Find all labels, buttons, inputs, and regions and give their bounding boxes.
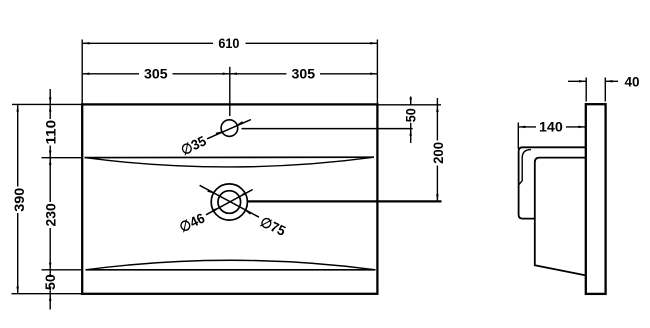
label 230 — [43, 203, 59, 227]
chain dim extension y158 — [42, 157, 83, 159]
svg-text:305: 305 — [292, 65, 316, 81]
tap hole circle — [221, 120, 238, 137]
svg-text:230: 230 — [43, 203, 59, 227]
basin outline plan view — [82, 104, 377, 293]
waste hole outer circle — [211, 184, 247, 220]
svg-text:140: 140 — [539, 118, 563, 134]
label 110 — [43, 120, 59, 145]
basin back ledge sag curve — [85, 157, 374, 167]
svg-text:390: 390 — [11, 188, 27, 212]
dim 200 — [436, 98, 438, 141]
label diameter 35 — [178, 132, 209, 158]
waste leader line for diameter 46 — [206, 190, 253, 215]
tap hole leader diagonal — [207, 120, 251, 139]
label 200 — [430, 142, 446, 164]
svg-text:200: 200 — [430, 142, 446, 164]
label diameter 46 — [177, 210, 207, 236]
chain dim arrow pairs — [49, 97, 52, 104]
side profile rim fillet — [519, 150, 531, 185]
label 50 left — [42, 274, 58, 290]
dim 390 extension top — [12, 103, 82, 105]
side profile outer — [519, 147, 586, 218]
extension line top right — [377, 104, 441, 106]
dim 50 right — [410, 97, 412, 105]
waste leader line for diameter 75 — [200, 185, 259, 217]
basin front edge bulge curve — [86, 260, 376, 270]
dim 40 extension lines — [585, 78, 587, 102]
leader from tap hole to 50 dim — [242, 128, 413, 130]
dim 305 left line — [82, 73, 139, 75]
dim 305 right line — [230, 73, 287, 75]
svg-text:50: 50 — [42, 274, 58, 290]
chain dim line x50 — [49, 89, 51, 119]
label diameter 75 — [258, 213, 288, 239]
waste hole inner circle — [218, 191, 241, 214]
svg-text:610: 610 — [218, 35, 239, 51]
svg-text:50: 50 — [403, 108, 419, 122]
centre line through tap hole — [229, 67, 231, 116]
leader from waste hole to 200 dim — [248, 200, 442, 202]
dim 610 extension line left — [81, 40, 83, 105]
basin front edge straight line — [86, 269, 376, 271]
basin back ledge straight edge — [85, 156, 374, 158]
dim 390 line — [17, 104, 19, 186]
dim 390 extension bottom — [12, 293, 83, 295]
label 50 right — [403, 108, 419, 122]
dim 610 line — [82, 42, 213, 44]
dim 40 line — [568, 80, 586, 82]
svg-text:305: 305 — [144, 65, 168, 81]
svg-text:40: 40 — [624, 74, 639, 90]
dim 140 extension line — [517, 123, 519, 150]
svg-text:110: 110 — [43, 120, 59, 145]
side profile inner bowl — [535, 158, 586, 276]
dim 140 line — [518, 126, 536, 128]
label 390 — [11, 188, 27, 212]
side view rim slab — [586, 104, 606, 294]
dim 610 extension line right — [376, 40, 378, 105]
chain dim extension y270 — [42, 269, 83, 271]
